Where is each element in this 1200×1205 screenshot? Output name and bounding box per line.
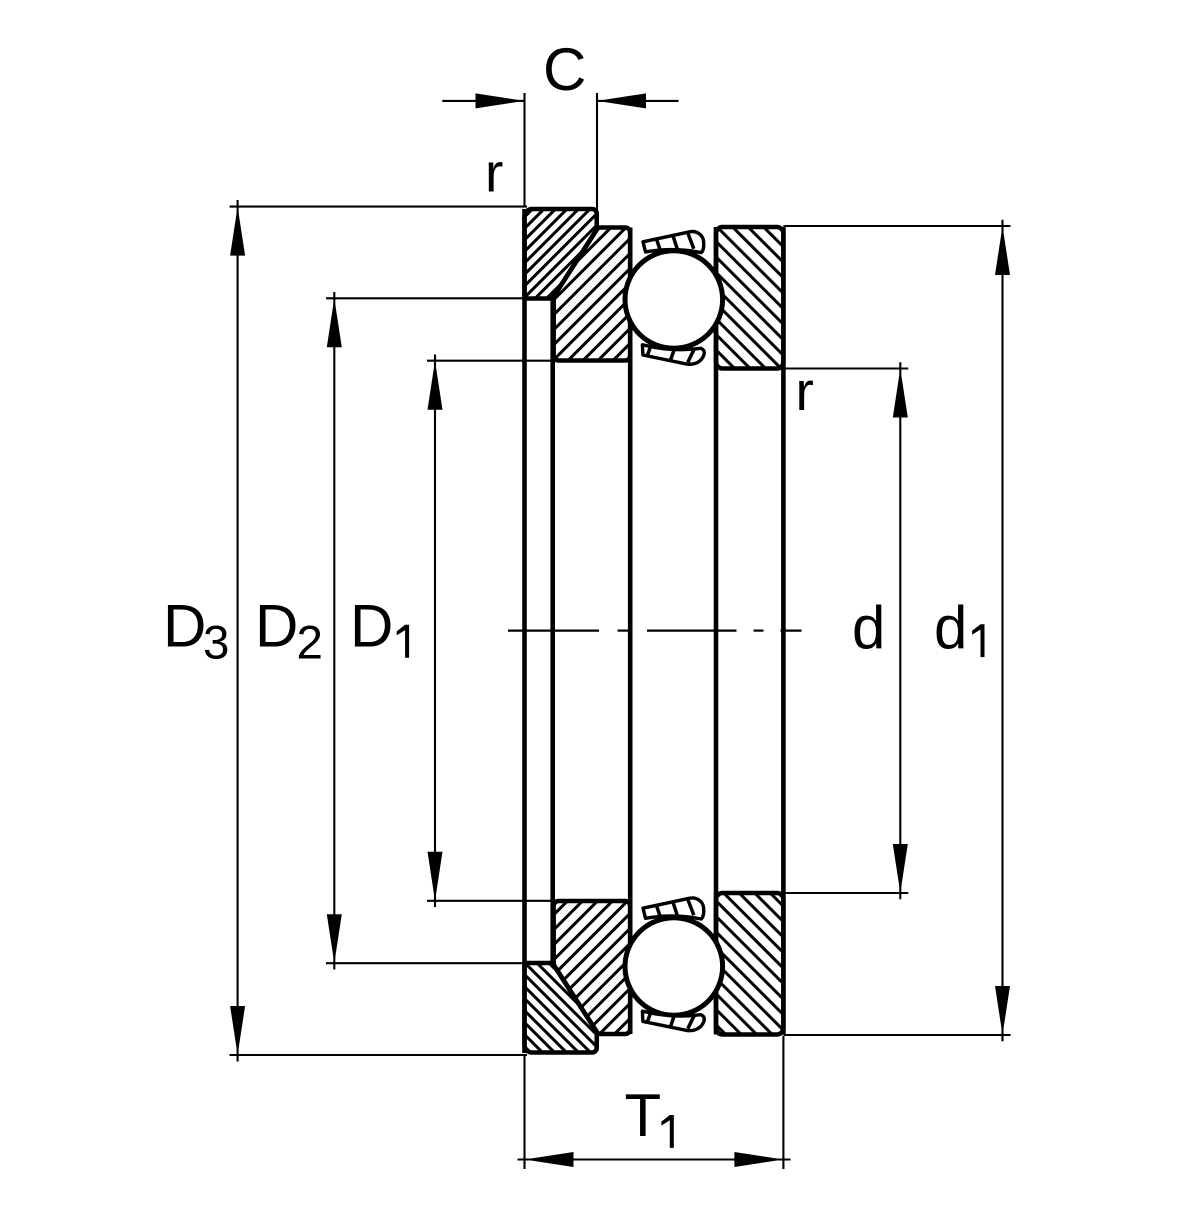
extension line D2 top xyxy=(326,297,523,299)
svg-text:d: d xyxy=(934,594,967,661)
silhouette line: shaft washer face left (x=716) xyxy=(714,227,719,1035)
extension line d bottom xyxy=(783,892,908,894)
dimension line D2 xyxy=(333,292,335,970)
dimension line d xyxy=(899,362,901,899)
silhouette line: housing washer bore edge (x=630.2) xyxy=(628,228,633,1035)
dimension line D3 xyxy=(237,200,239,1062)
extension line T1 right xyxy=(782,1036,784,1169)
ball, bottom section xyxy=(625,918,723,1016)
svg-text:r: r xyxy=(796,360,814,422)
shaft washer, bottom section xyxy=(716,893,783,1035)
extension line C left xyxy=(523,93,525,206)
sphered housing washer, top section xyxy=(554,228,631,361)
ball, top section xyxy=(625,251,723,349)
extension line T1 left xyxy=(523,1055,525,1169)
silhouette line: shaft washer face right (x=783.4) xyxy=(781,227,786,1035)
silhouette line: seating washer face (x=524.5) xyxy=(522,209,527,1053)
dimension line d1 xyxy=(1001,220,1003,1041)
sphered housing washer, bottom section xyxy=(554,901,631,1034)
seating washer U, bottom section xyxy=(525,963,597,1053)
dimension line C left part xyxy=(442,100,524,102)
extension line d1 top xyxy=(783,225,1010,227)
extension line D1 bottom xyxy=(427,900,556,902)
svg-text:D: D xyxy=(163,593,206,660)
extension line d1 bottom xyxy=(783,1034,1010,1036)
extension line C right xyxy=(596,93,598,212)
svg-text:3: 3 xyxy=(203,616,229,669)
cage bands around top ball xyxy=(643,232,704,253)
shaft washer, top section xyxy=(716,227,783,369)
svg-text:d: d xyxy=(852,594,885,661)
extension line D3 top xyxy=(230,206,528,208)
center line (bearing axis) xyxy=(508,629,599,631)
silhouette line: sphere seat edge (x=552.7) xyxy=(550,297,555,965)
svg-text:r: r xyxy=(485,142,503,204)
svg-text:D: D xyxy=(350,593,393,660)
svg-text:2: 2 xyxy=(297,616,323,669)
seating washer U, top section xyxy=(525,209,597,299)
extension line D1 top xyxy=(427,360,556,362)
dimension line T1 xyxy=(518,1158,791,1160)
extension line d top xyxy=(783,367,908,369)
svg-text:T: T xyxy=(625,1082,662,1149)
svg-text:C: C xyxy=(543,36,586,103)
dimension line C right part xyxy=(597,100,679,102)
extension line D3 bottom xyxy=(230,1054,528,1056)
svg-text:D: D xyxy=(255,593,298,660)
cage bands around bottom ball xyxy=(643,898,704,919)
dimension line D1 xyxy=(434,355,436,908)
extension line D2 bottom xyxy=(326,962,523,964)
